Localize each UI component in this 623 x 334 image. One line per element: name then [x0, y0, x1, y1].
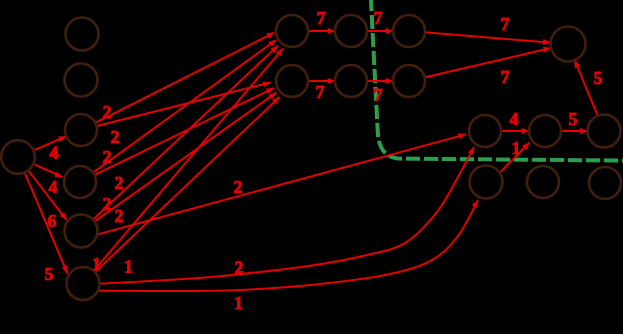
edge L6-M1 — [94, 49, 283, 271]
node M3 — [393, 15, 425, 47]
node M2 — [335, 15, 367, 47]
node L3 — [65, 114, 97, 146]
edge L6-Q1 curve — [99, 200, 479, 291]
node R1 — [469, 115, 501, 147]
node L6 — [67, 267, 100, 300]
svg-text:5: 5 — [594, 68, 603, 88]
node Q3 — [589, 167, 621, 199]
node Q1 — [470, 166, 503, 199]
edge M1-M2 — [308, 30, 335, 32]
node L1 — [66, 18, 99, 51]
edge L4-N1 — [94, 88, 274, 175]
svg-text:2: 2 — [115, 173, 124, 193]
svg-text:7: 7 — [374, 8, 383, 28]
edge S-L5 — [28, 170, 66, 220]
svg-text:7: 7 — [317, 8, 326, 28]
svg-text:6: 6 — [48, 211, 57, 231]
svg-text:7: 7 — [501, 67, 510, 87]
svg-text:4: 4 — [49, 177, 58, 197]
svg-text:2: 2 — [103, 194, 112, 214]
edge N2-N3 — [367, 80, 393, 82]
svg-text:2: 2 — [235, 258, 244, 278]
edge S-L6 — [25, 173, 68, 274]
node L4 — [64, 166, 96, 198]
edge L5-N1 — [95, 93, 277, 222]
edge L3-M1 — [95, 33, 274, 123]
edge R1-R2 — [501, 130, 529, 132]
node T — [551, 27, 586, 62]
edge N1-N2 — [308, 80, 335, 82]
node S — [1, 140, 35, 174]
node N3 — [393, 65, 425, 97]
edge L3-N1 — [97, 83, 271, 127]
svg-text:1: 1 — [124, 257, 133, 277]
node R3 — [588, 115, 621, 148]
edge S-L4 — [33, 164, 62, 177]
svg-text:4: 4 — [510, 109, 519, 129]
node R2 — [529, 115, 561, 147]
edge M2-M3 — [367, 30, 393, 32]
node L5 — [65, 215, 98, 248]
svg-text:2: 2 — [111, 127, 120, 147]
svg-text:1: 1 — [92, 254, 101, 274]
svg-text:7: 7 — [501, 14, 510, 34]
svg-text:7: 7 — [316, 82, 325, 102]
node Q2 — [527, 166, 559, 198]
svg-text:4: 4 — [50, 143, 59, 163]
node N2 — [335, 65, 367, 97]
edge M3-T — [425, 32, 551, 42]
svg-text:2: 2 — [234, 177, 243, 197]
node L2 — [65, 64, 98, 97]
edge L4-M1 — [93, 40, 276, 173]
edge L5-R1 — [98, 134, 466, 234]
svg-text:2: 2 — [103, 147, 112, 167]
edge L5-M1 — [93, 46, 278, 220]
svg-text:1: 1 — [234, 293, 243, 313]
edge Q1-R2 — [500, 143, 530, 173]
edge R3-T — [575, 60, 598, 116]
svg-text:5: 5 — [569, 109, 578, 129]
svg-text:2: 2 — [115, 206, 124, 226]
min-cut dashed line — [371, 0, 623, 161]
node M1 — [276, 15, 308, 47]
edge L6-R1 curve — [99, 147, 475, 284]
edge R2-R3 — [561, 130, 588, 132]
svg-text:1: 1 — [512, 138, 521, 158]
edge L6-N1 — [95, 97, 280, 272]
node N1 — [276, 65, 308, 97]
svg-text:2: 2 — [103, 102, 112, 122]
svg-text:7: 7 — [374, 85, 383, 105]
edge N3-T — [425, 48, 551, 77]
edge S-L3 — [33, 136, 66, 150]
svg-text:5: 5 — [45, 264, 54, 284]
